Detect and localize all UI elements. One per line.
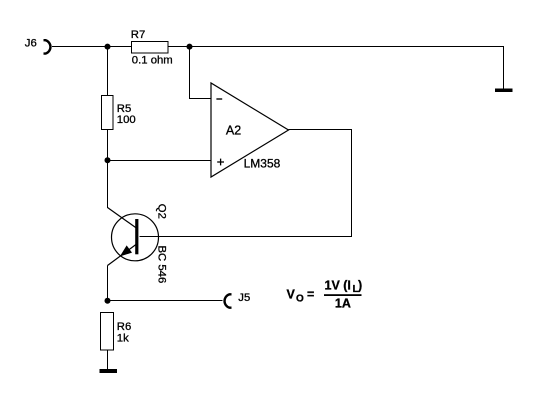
- node junction at non-inverting tap: [105, 157, 111, 163]
- resistor R6: [101, 313, 132, 351]
- svg-text:R6: R6: [117, 321, 131, 333]
- wire J6 to R7: [52, 46, 132, 48]
- wire emitter down to junction: [107, 266, 109, 302]
- resistor R7: [131, 29, 173, 66]
- svg-text:1A: 1A: [335, 297, 351, 311]
- wire tap to inverting input: [190, 47, 212, 99]
- svg-text:Q2: Q2: [156, 204, 168, 219]
- formula Vo = 1V (IL) / 1A: [287, 279, 363, 311]
- wire to non-inverting input: [108, 160, 212, 162]
- ground (top right): [495, 89, 513, 93]
- wire junction to J5: [108, 300, 223, 302]
- svg-text:1k: 1k: [117, 333, 129, 345]
- svg-text:J5: J5: [238, 292, 250, 304]
- svg-text:=: =: [307, 288, 314, 302]
- node junction at R5 top / J6 wire: [105, 44, 111, 50]
- op-amp A2: [211, 83, 289, 177]
- svg-text:V: V: [287, 288, 296, 302]
- svg-text:): ): [358, 279, 362, 293]
- wire R7 to top-right corner: [168, 46, 504, 48]
- connector J6: [25, 38, 51, 54]
- svg-text:1V (I: 1V (I: [325, 279, 351, 293]
- resistor R5: [102, 96, 136, 130]
- svg-text:LM358: LM358: [244, 157, 281, 171]
- transistor Q2: [108, 204, 168, 283]
- node junction at inverting-input tap: [187, 44, 193, 50]
- wire op-amp output to transistor base: [140, 130, 352, 237]
- ground (bottom): [100, 369, 118, 373]
- wire junction down to R5: [107, 47, 109, 96]
- svg-text:R5: R5: [117, 103, 131, 115]
- svg-text:A2: A2: [226, 124, 241, 138]
- node junction at emitter / J5 / R6: [105, 298, 111, 304]
- svg-text:BC 546: BC 546: [156, 246, 168, 284]
- svg-text:100: 100: [117, 114, 136, 126]
- svg-text:R7: R7: [131, 29, 145, 41]
- wire down to ground (top right): [503, 47, 505, 90]
- connector J5: [225, 292, 251, 308]
- wire R5 to collector bend: [107, 130, 109, 208]
- svg-text:O: O: [296, 293, 304, 304]
- svg-text:J6: J6: [25, 38, 37, 50]
- svg-text:0.1 ohm: 0.1 ohm: [132, 54, 173, 66]
- wire R6 to ground: [107, 350, 109, 369]
